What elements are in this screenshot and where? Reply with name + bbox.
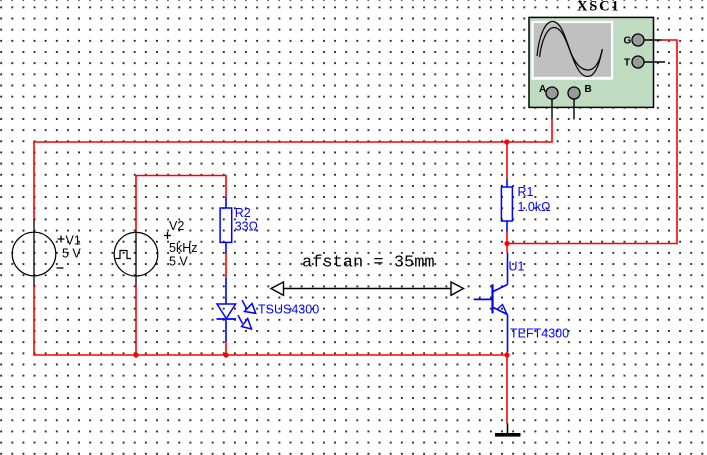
resistor R1 [501,179,550,232]
svg-text:R2: R2 [235,206,251,220]
svg-text:V1: V1 [66,234,81,248]
svg-text:TEFT4300: TEFT4300 [510,327,569,341]
scope trace big [537,22,602,77]
terminal G [644,39,662,41]
ground [495,424,521,437]
emission arrow 2 [238,315,243,323]
wire: LED cathode to bottom rail [225,342,227,355]
wire top: V1 top to oscilloscope A [34,119,552,219]
svg-text:TSUS4300: TSUS4300 [258,303,319,317]
wire: oscilloscope G to R1 bottom node [507,40,677,244]
svg-text:R1: R1 [518,185,534,199]
junction node at LED bottom [223,352,228,357]
junction node at R1 bottom [504,241,509,246]
phototransistor U1 TEFT4300 [474,253,569,353]
svg-text:B: B [585,84,592,95]
svg-text:A: A [539,84,546,95]
LED TSUS4300 [217,278,320,342]
svg-text:XSC1: XSC1 [577,0,620,15]
svg-text:5 V: 5 V [62,247,81,261]
svg-text:T: T [624,58,630,69]
oscilloscope XSC1 [529,0,665,120]
terminal A [551,99,553,119]
junction node at V2 bottom [133,352,138,357]
svg-text:V2: V2 [169,219,184,233]
svg-text:5kHz: 5kHz [169,241,197,255]
svg-text:G: G [624,36,632,47]
voltage source V1 [12,219,81,286]
wire: V2 bottom to bottom rail [135,286,137,356]
svg-text:33Ω: 33Ω [235,220,258,234]
wire: node at top rail down to R1 top [506,142,508,179]
wire: V2 top to R2 top [136,176,226,231]
svg-text:5 V: 5 V [169,255,188,269]
wire: R1 bottom to transistor collector [506,232,508,253]
wire: transistor emitter to bottom rail [506,352,508,355]
svg-text:afstan = 35mm: afstan = 35mm [302,254,435,273]
svg-text:U1: U1 [509,260,525,274]
scope trace small [540,28,603,71]
wire: bottom rail to ground [506,355,508,424]
distance annotation arrow [271,254,464,296]
junction node at R1 top [504,139,509,144]
svg-text:1.0kΩ: 1.0kΩ [518,200,551,214]
resistor R2 [220,197,258,254]
wire bottom: V1 bottom to ground node [34,286,507,355]
terminal B [573,99,575,120]
wire: R2 bottom to LED anode [225,254,227,279]
junction node at emitter/ground [504,352,509,357]
terminal T [644,61,665,63]
voltage source V2 (square wave) [114,219,197,286]
emission arrow 1 [242,300,246,308]
